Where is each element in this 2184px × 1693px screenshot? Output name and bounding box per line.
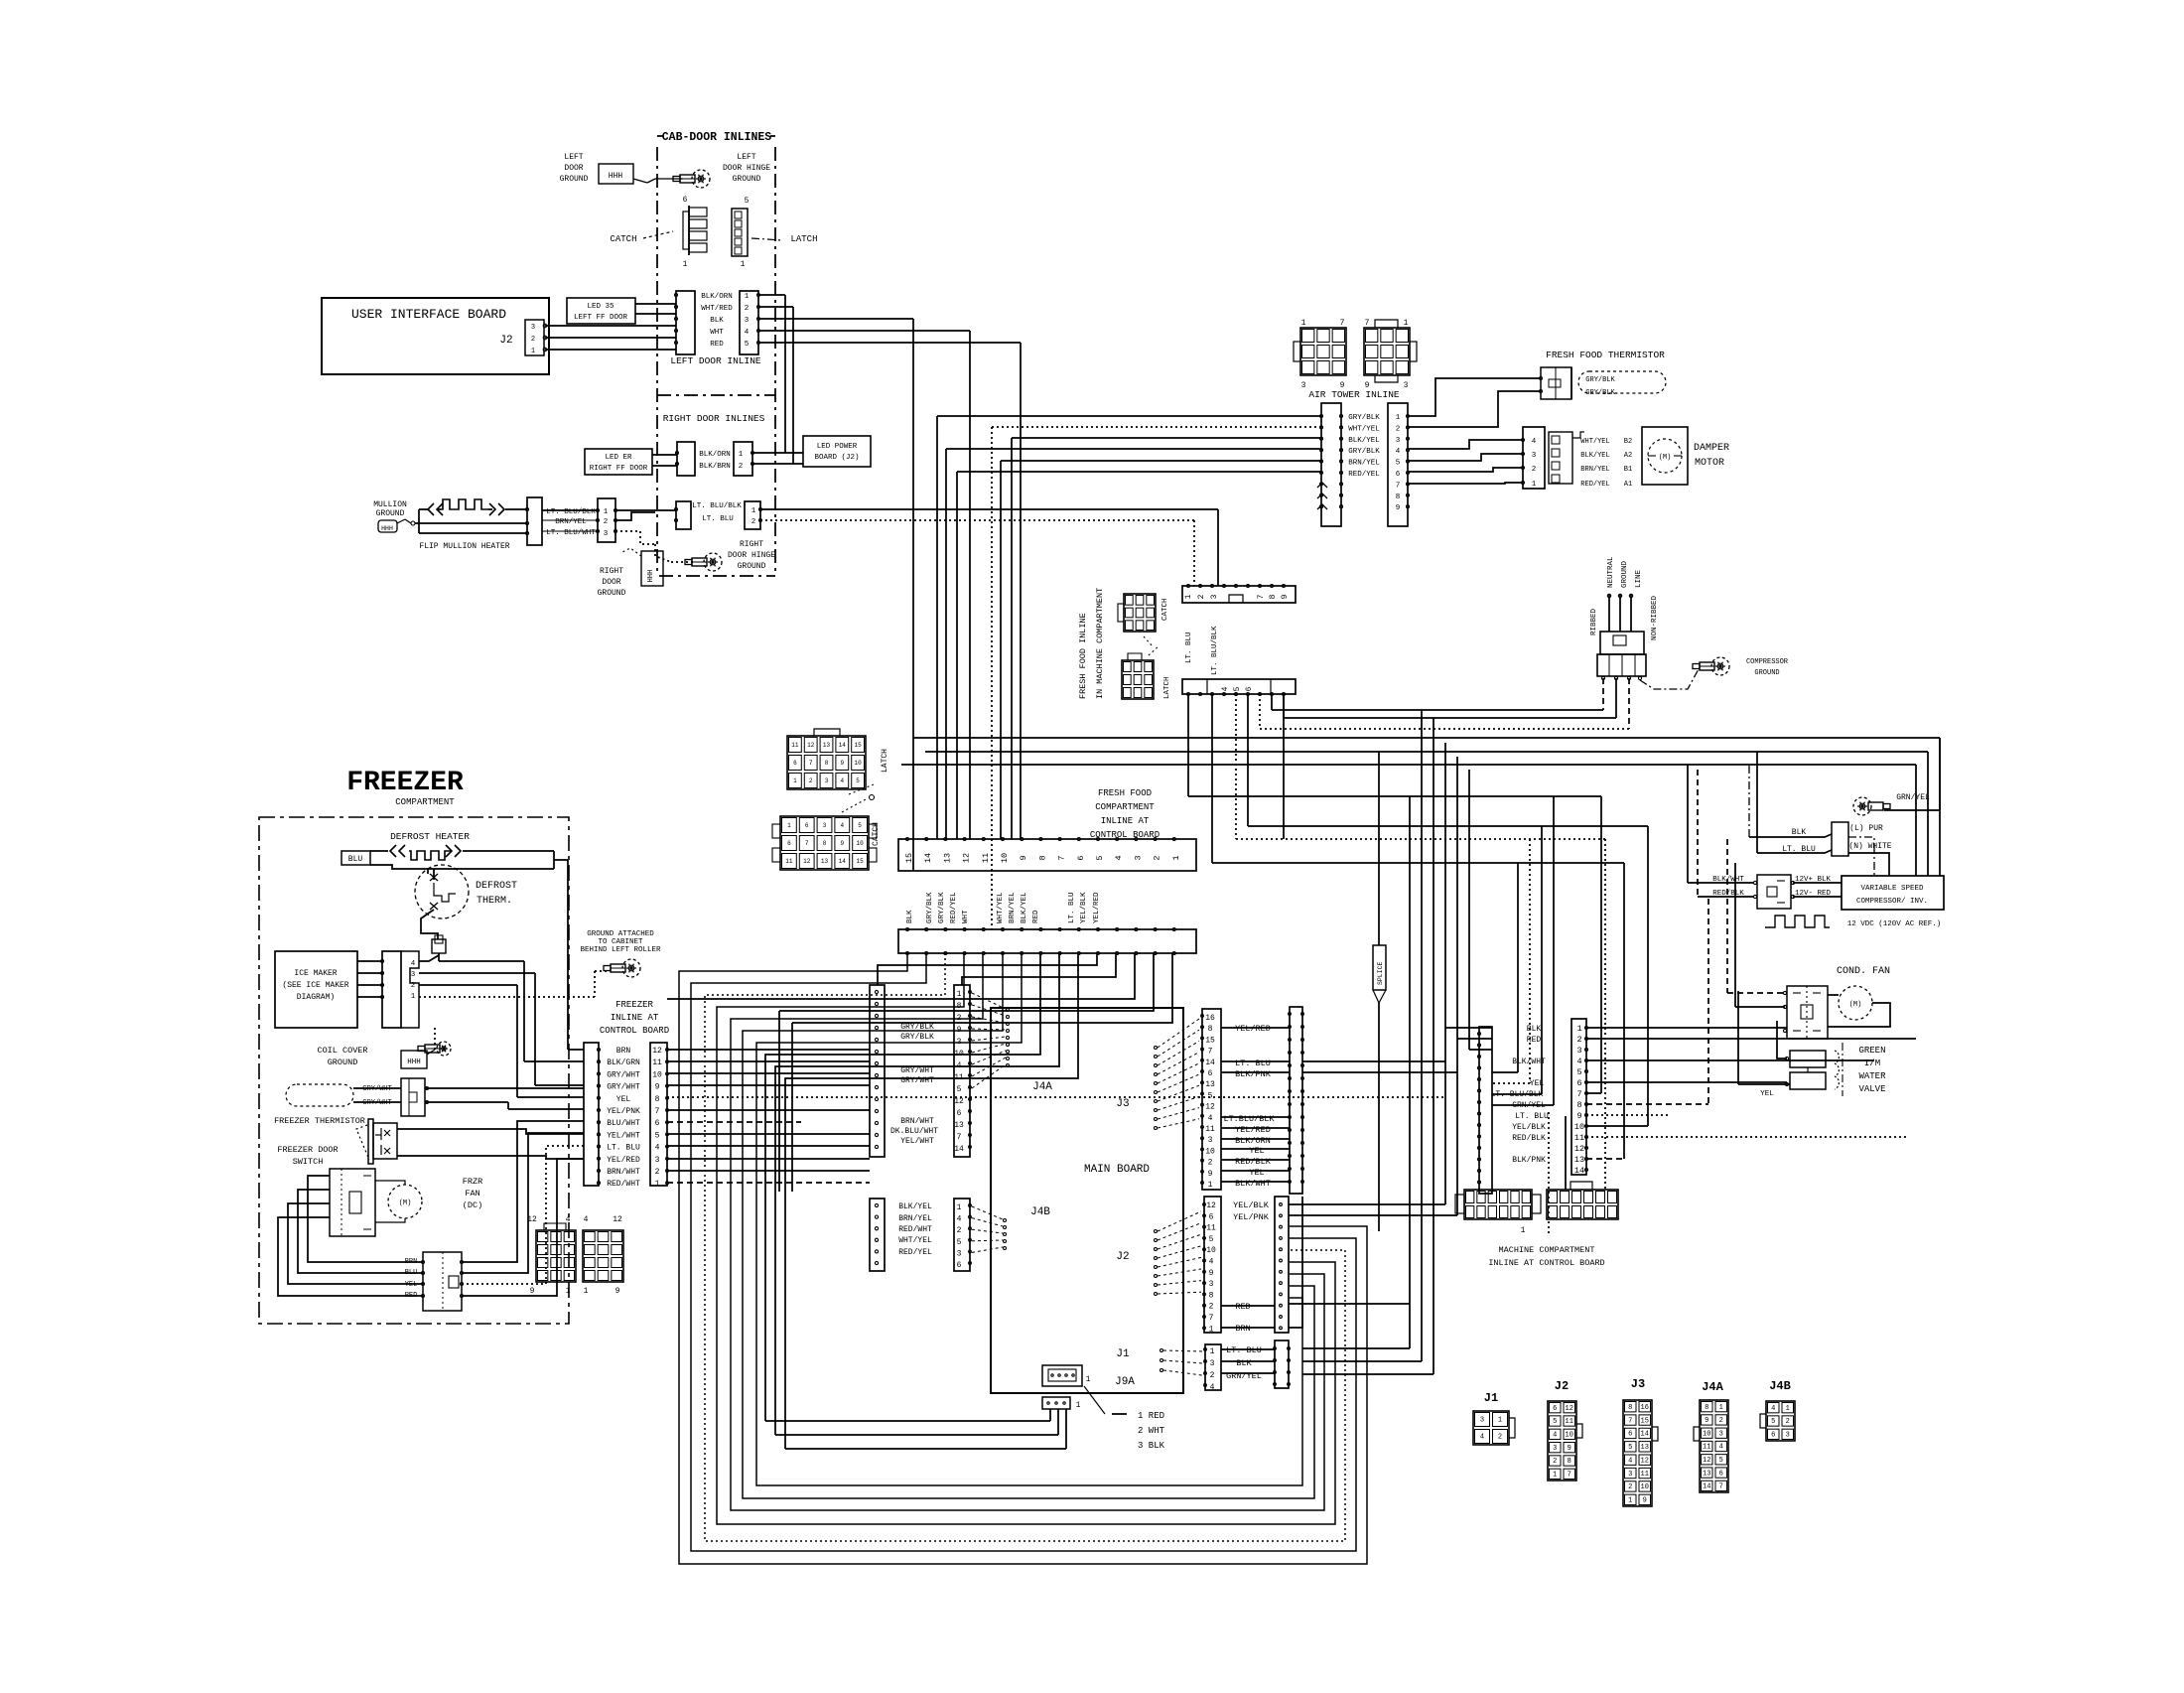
svg-text:2: 2 bbox=[1498, 1434, 1502, 1442]
svg-text:RIGHT DOOR INLINES: RIGHT DOOR INLINES bbox=[663, 413, 765, 424]
svg-text:BLK/YEL: BLK/YEL bbox=[898, 1202, 932, 1211]
svg-text:WHT/YEL: WHT/YEL bbox=[1580, 438, 1609, 446]
svg-text:GROUND: GROUND bbox=[328, 1058, 358, 1067]
svg-text:LT.BLU/BLK: LT.BLU/BLK bbox=[1223, 1114, 1275, 1124]
latch grid 5x3 bbox=[787, 736, 866, 789]
svg-text:MACHINE COMPARTMENT: MACHINE COMPARTMENT bbox=[1499, 1245, 1595, 1255]
freezer thermistor bbox=[286, 1084, 353, 1106]
svg-text:1: 1 bbox=[739, 451, 744, 459]
wires air tower pins 3-6 to damper connector bbox=[1408, 440, 1523, 449]
svg-text:12: 12 bbox=[613, 1215, 622, 1224]
wire loop bundle from control board inline bbox=[679, 953, 1367, 1564]
flip mullion heater resistor bbox=[419, 508, 428, 510]
svg-text:2: 2 bbox=[604, 518, 609, 526]
svg-text:GROUND: GROUND bbox=[1621, 560, 1629, 588]
svg-text:11: 11 bbox=[1205, 1125, 1215, 1134]
svg-text:DIAGRAM): DIAGRAM) bbox=[297, 993, 335, 1002]
svg-text:1: 1 bbox=[1521, 1226, 1526, 1235]
svg-text:RED/YEL: RED/YEL bbox=[950, 892, 958, 923]
svg-text:2 WHT: 2 WHT bbox=[1138, 1426, 1165, 1436]
svg-text:5: 5 bbox=[655, 1131, 660, 1140]
svg-text:GRY/BLK: GRY/BLK bbox=[1348, 448, 1380, 456]
defrost thermostat bbox=[415, 865, 469, 918]
svg-text:FREEZER: FREEZER bbox=[346, 768, 464, 798]
svg-text:BLK/PNK: BLK/PNK bbox=[1512, 1156, 1546, 1165]
svg-text:GRY/WHT: GRY/WHT bbox=[607, 1083, 640, 1092]
svg-text:J1: J1 bbox=[1116, 1348, 1130, 1360]
svg-text:1: 1 bbox=[1719, 1404, 1723, 1412]
svg-text:6: 6 bbox=[805, 822, 809, 829]
svg-text:LT. BLU/BLK: LT. BLU/BLK bbox=[1211, 626, 1219, 675]
svg-text:BLK/ORN: BLK/ORN bbox=[1235, 1136, 1271, 1146]
svg-text:1: 1 bbox=[1210, 1347, 1215, 1356]
svg-text:9: 9 bbox=[1281, 594, 1290, 599]
svg-text:11: 11 bbox=[785, 858, 793, 865]
svg-text:12: 12 bbox=[1566, 1405, 1573, 1413]
svg-text:1: 1 bbox=[1576, 1024, 1581, 1034]
right wire bundle bbox=[1409, 796, 1411, 1348]
svg-text:6: 6 bbox=[655, 1119, 660, 1128]
svg-text:7: 7 bbox=[1208, 1048, 1213, 1057]
svg-text:DOOR: DOOR bbox=[564, 164, 583, 173]
svg-text:BLK/BRN: BLK/BRN bbox=[699, 463, 731, 471]
svg-text:11: 11 bbox=[1574, 1133, 1584, 1143]
svg-text:7: 7 bbox=[1057, 855, 1067, 860]
svg-text:3: 3 bbox=[957, 1249, 962, 1258]
svg-text:5: 5 bbox=[1095, 855, 1105, 860]
svg-text:14: 14 bbox=[954, 1145, 964, 1154]
svg-text:WHT/RED: WHT/RED bbox=[701, 305, 733, 313]
svg-text:LED POWER: LED POWER bbox=[817, 443, 858, 451]
freezer inline left strip bbox=[584, 1043, 599, 1186]
svg-text:RIBBED: RIBBED bbox=[1590, 608, 1598, 635]
svg-text:3: 3 bbox=[411, 971, 416, 979]
svg-text:NEUTRAL: NEUTRAL bbox=[1607, 556, 1615, 588]
svg-text:VARIABLE SPEED: VARIABLE SPEED bbox=[1860, 885, 1924, 893]
svg-text:LT. BLU: LT. BLU bbox=[1235, 1058, 1271, 1068]
svg-text:ICE MAKER: ICE MAKER bbox=[294, 969, 337, 978]
svg-text:5: 5 bbox=[858, 822, 862, 829]
svg-text:FRZR: FRZR bbox=[463, 1177, 482, 1187]
svg-text:B1: B1 bbox=[1624, 466, 1632, 474]
svg-text:BLU/WHT: BLU/WHT bbox=[607, 1119, 640, 1128]
svg-text:RIGHT: RIGHT bbox=[600, 567, 623, 576]
defrost heater element bbox=[370, 850, 388, 852]
svg-text:2: 2 bbox=[1153, 855, 1162, 860]
svg-text:1: 1 bbox=[584, 1287, 589, 1296]
svg-text:YEL/RED: YEL/RED bbox=[1235, 1024, 1271, 1034]
svg-text:5: 5 bbox=[957, 1238, 962, 1247]
svg-text:BLK/YEL: BLK/YEL bbox=[1580, 452, 1609, 460]
svg-text:(L) PUR: (L) PUR bbox=[1849, 824, 1883, 833]
svg-text:J4B: J4B bbox=[1769, 1379, 1791, 1393]
svg-text:3: 3 bbox=[823, 822, 827, 829]
svg-text:BLK/YEL: BLK/YEL bbox=[1021, 892, 1028, 923]
svg-text:GROUND: GROUND bbox=[376, 509, 405, 518]
svg-text:CONTROL BOARD: CONTROL BOARD bbox=[1090, 830, 1160, 840]
svg-text:9: 9 bbox=[1209, 1269, 1214, 1278]
svg-text:2: 2 bbox=[1208, 1159, 1213, 1168]
svg-text:LATCH: LATCH bbox=[790, 234, 817, 244]
svg-text:6: 6 bbox=[1209, 1212, 1214, 1221]
svg-text:10: 10 bbox=[652, 1070, 662, 1079]
svg-text:5: 5 bbox=[1553, 1418, 1557, 1426]
svg-text:11: 11 bbox=[1703, 1444, 1710, 1452]
svg-text:4: 4 bbox=[566, 1215, 571, 1224]
svg-text:4: 4 bbox=[411, 960, 416, 968]
svg-text:LT. BLU: LT. BLU bbox=[1068, 892, 1076, 923]
svg-text:10: 10 bbox=[856, 840, 864, 847]
svg-text:10: 10 bbox=[1641, 1483, 1649, 1491]
svg-text:16: 16 bbox=[1641, 1404, 1649, 1412]
svg-text:RED/YEL: RED/YEL bbox=[898, 1248, 932, 1257]
svg-text:LEFT: LEFT bbox=[737, 153, 755, 162]
svg-text:BRN: BRN bbox=[616, 1047, 631, 1056]
svg-text:INLINE AT CONTROL BOARD: INLINE AT CONTROL BOARD bbox=[1488, 1258, 1604, 1268]
J4A fan-out leaders bbox=[972, 993, 1006, 1009]
svg-text:YEL: YEL bbox=[1249, 1146, 1264, 1156]
svg-text:9: 9 bbox=[1576, 1111, 1581, 1121]
left door inline connector strips bbox=[676, 291, 695, 354]
svg-text:INLINE AT: INLINE AT bbox=[611, 1013, 659, 1023]
svg-text:DEFROST HEATER: DEFROST HEATER bbox=[390, 831, 470, 842]
svg-text:4: 4 bbox=[1396, 448, 1401, 456]
svg-text:BLK: BLK bbox=[1792, 828, 1807, 837]
svg-text:4: 4 bbox=[1628, 1457, 1632, 1465]
svg-text:LT. BLU: LT. BLU bbox=[1185, 632, 1193, 663]
J4B pin strip bbox=[954, 1199, 970, 1271]
svg-text:2: 2 bbox=[809, 777, 813, 784]
wires cond fan feed bbox=[1727, 992, 1785, 994]
svg-text:2: 2 bbox=[751, 518, 756, 526]
svg-text:I/M: I/M bbox=[1864, 1058, 1880, 1068]
svg-text:4: 4 bbox=[840, 777, 844, 784]
svg-text:YEL/BLK: YEL/BLK bbox=[1233, 1200, 1270, 1210]
J4B fan-out leaders bbox=[972, 1206, 1003, 1219]
svg-text:RED: RED bbox=[1527, 1036, 1542, 1045]
svg-text:14: 14 bbox=[1574, 1166, 1584, 1176]
svg-text:1: 1 bbox=[1404, 319, 1409, 328]
svg-text:8: 8 bbox=[1208, 1025, 1213, 1034]
wires strip2 to J9A verticals bbox=[765, 953, 1040, 1082]
svg-text:10: 10 bbox=[1703, 1430, 1710, 1438]
svg-text:BRN/YEL: BRN/YEL bbox=[555, 518, 587, 526]
damper motor box bbox=[1642, 427, 1688, 485]
left door hinge ground symbol bbox=[692, 170, 710, 188]
svg-text:8: 8 bbox=[1037, 855, 1047, 860]
wires strip2 leftward bbox=[667, 953, 1135, 999]
svg-text:BRN/YEL: BRN/YEL bbox=[1348, 460, 1380, 468]
wire defrost therm to fuse bbox=[421, 910, 438, 939]
svg-text:DEFROST: DEFROST bbox=[476, 881, 517, 892]
svg-text:CATCH: CATCH bbox=[872, 822, 881, 846]
svg-text:COMPRESSOR: COMPRESSOR bbox=[1746, 658, 1789, 666]
svg-text:BLK: BLK bbox=[1236, 1358, 1252, 1368]
svg-text:YEL: YEL bbox=[1760, 1090, 1774, 1098]
svg-text:BLK/WHT: BLK/WHT bbox=[1235, 1179, 1271, 1189]
J4A left strip bbox=[870, 985, 885, 1157]
svg-text:RED: RED bbox=[1032, 910, 1040, 923]
svg-text:1: 1 bbox=[1628, 1497, 1632, 1505]
svg-text:1: 1 bbox=[957, 990, 962, 999]
svg-text:GROUND: GROUND bbox=[560, 175, 589, 184]
svg-text:GRY/BLK: GRY/BLK bbox=[1348, 414, 1380, 422]
ground attached symbol bbox=[622, 959, 640, 977]
svg-text:1: 1 bbox=[787, 822, 791, 829]
ff inline catch grid bbox=[1124, 594, 1156, 632]
svg-text:4: 4 bbox=[957, 1215, 962, 1224]
wires UIB J2 to left door inline bbox=[545, 325, 676, 327]
splice marker bbox=[1373, 945, 1386, 990]
svg-text:LED 35: LED 35 bbox=[587, 303, 614, 311]
svg-text:9: 9 bbox=[1396, 504, 1401, 512]
wire continuation arrows near air tower bbox=[1317, 483, 1327, 488]
svg-text:J4A: J4A bbox=[1032, 1081, 1052, 1093]
svg-text:1: 1 bbox=[745, 293, 750, 301]
svg-text:10: 10 bbox=[1206, 1246, 1216, 1255]
svg-text:3: 3 bbox=[655, 1156, 660, 1165]
svg-text:5: 5 bbox=[957, 1085, 962, 1094]
svg-text:TO CABINET: TO CABINET bbox=[598, 938, 643, 946]
svg-text:3: 3 bbox=[1786, 1432, 1790, 1440]
svg-text:7: 7 bbox=[1719, 1483, 1723, 1491]
svg-text:YEL/RED: YEL/RED bbox=[1093, 892, 1101, 923]
svg-text:YEL/RED: YEL/RED bbox=[1235, 1125, 1271, 1135]
right door inline connector strips bbox=[677, 442, 695, 476]
svg-text:4: 4 bbox=[1480, 1434, 1484, 1442]
svg-text:BRN/WHT: BRN/WHT bbox=[900, 1117, 934, 1126]
svg-text:6: 6 bbox=[1628, 1431, 1632, 1439]
svg-text:COIL COVER: COIL COVER bbox=[317, 1046, 367, 1056]
svg-text:3: 3 bbox=[1628, 1471, 1632, 1479]
svg-text:6: 6 bbox=[683, 196, 688, 205]
svg-text:8: 8 bbox=[1568, 1458, 1571, 1466]
air tower inline grid connector right bbox=[1364, 328, 1410, 375]
svg-text:MAIN BOARD: MAIN BOARD bbox=[1084, 1164, 1150, 1176]
svg-text:12: 12 bbox=[1574, 1144, 1584, 1154]
svg-text:7: 7 bbox=[1257, 594, 1266, 599]
svg-text:YEL/WHT: YEL/WHT bbox=[607, 1131, 640, 1140]
svg-text:2: 2 bbox=[531, 336, 535, 344]
svg-text:DAMPER: DAMPER bbox=[1694, 443, 1729, 454]
svg-text:RED/BLK: RED/BLK bbox=[1235, 1157, 1272, 1167]
J1 fan-out leaders bbox=[1163, 1350, 1202, 1351]
mullion heater pin strip bbox=[598, 498, 615, 542]
svg-text:USER INTERFACE BOARD: USER INTERFACE BOARD bbox=[351, 307, 506, 322]
J3 fan-out leaders bbox=[1158, 1019, 1199, 1048]
wires LED35 to left door inline bbox=[635, 303, 676, 305]
svg-text:LT. BLU: LT. BLU bbox=[1515, 1112, 1549, 1121]
svg-text:13: 13 bbox=[1641, 1444, 1649, 1452]
svg-text:CONTROL BOARD: CONTROL BOARD bbox=[600, 1026, 669, 1036]
svg-text:1 RED: 1 RED bbox=[1138, 1411, 1164, 1421]
svg-text:3: 3 bbox=[1404, 381, 1409, 390]
svg-text:J2: J2 bbox=[1116, 1251, 1129, 1263]
svg-text:7: 7 bbox=[809, 760, 813, 767]
svg-text:6: 6 bbox=[1771, 1432, 1775, 1440]
svg-text:FREEZER DOOR: FREEZER DOOR bbox=[277, 1145, 338, 1155]
svg-text:J4B: J4B bbox=[1030, 1206, 1050, 1218]
svg-text:LED ER: LED ER bbox=[605, 454, 632, 462]
svg-text:YEL: YEL bbox=[616, 1095, 631, 1104]
svg-text:9: 9 bbox=[1705, 1417, 1708, 1425]
user interface board bbox=[322, 298, 549, 374]
svg-text:B2: B2 bbox=[1624, 438, 1632, 446]
wires water valve bbox=[1777, 1021, 1787, 1058]
svg-text:RIGHT: RIGHT bbox=[740, 540, 763, 549]
J4A pin strip bbox=[954, 985, 970, 1157]
ff inline lower strip bbox=[1182, 679, 1296, 694]
svg-text:(M): (M) bbox=[1849, 1001, 1862, 1009]
svg-text:LEFT DOOR INLINE: LEFT DOOR INLINE bbox=[670, 355, 761, 366]
svg-text:6: 6 bbox=[957, 1261, 962, 1270]
svg-text:1: 1 bbox=[1301, 319, 1306, 328]
svg-text:3: 3 bbox=[1133, 855, 1143, 860]
water valve assembly bbox=[1790, 1051, 1826, 1067]
svg-text:12: 12 bbox=[803, 858, 811, 865]
wires right door inline to LED power board bbox=[752, 452, 803, 454]
svg-text:(N) WHITE: (N) WHITE bbox=[1848, 842, 1891, 851]
BLU label box bbox=[341, 851, 370, 865]
svg-text:SWITCH: SWITCH bbox=[293, 1157, 324, 1167]
svg-text:10: 10 bbox=[1566, 1432, 1573, 1440]
svg-text:LT. BLU: LT. BLU bbox=[702, 515, 734, 523]
svg-text:FRESH FOOD THERMISTOR: FRESH FOOD THERMISTOR bbox=[1546, 350, 1665, 360]
svg-text:LATCH: LATCH bbox=[1163, 676, 1171, 699]
svg-text:12: 12 bbox=[807, 742, 815, 749]
svg-text:YEL/RED: YEL/RED bbox=[607, 1156, 640, 1165]
J2 pin strip bbox=[1204, 1197, 1221, 1333]
svg-text:3 BLK: 3 BLK bbox=[1138, 1441, 1165, 1451]
svg-text:1: 1 bbox=[411, 993, 416, 1001]
svg-text:DK.BLU/WHT: DK.BLU/WHT bbox=[890, 1127, 938, 1136]
wires mullion pins to door inline bbox=[542, 509, 598, 511]
svg-text:6: 6 bbox=[1719, 1470, 1723, 1478]
svg-text:1: 1 bbox=[1076, 1401, 1081, 1410]
svg-text:2: 2 bbox=[1786, 1418, 1790, 1426]
svg-text:FRESH FOOD: FRESH FOOD bbox=[1098, 788, 1152, 798]
svg-text:7: 7 bbox=[1568, 1472, 1571, 1480]
compressor ground symbol bbox=[1711, 657, 1729, 675]
svg-text:DOOR: DOOR bbox=[602, 578, 620, 587]
svg-text:13: 13 bbox=[942, 853, 952, 863]
cab-door inlines dashed enclosure bbox=[656, 147, 658, 576]
svg-text:1: 1 bbox=[683, 260, 688, 269]
svg-text:4: 4 bbox=[1114, 855, 1124, 860]
svg-text:2: 2 bbox=[1719, 1417, 1723, 1425]
svg-text:BLK/PNK: BLK/PNK bbox=[1235, 1069, 1272, 1079]
svg-text:3: 3 bbox=[1480, 1417, 1484, 1425]
J1 right strip bbox=[1275, 1340, 1289, 1388]
svg-text:GROUND: GROUND bbox=[1754, 669, 1779, 677]
svg-text:BRN/YEL: BRN/YEL bbox=[1009, 892, 1017, 923]
svg-text:4: 4 bbox=[1208, 1114, 1213, 1123]
svg-text:J4A: J4A bbox=[1702, 1380, 1723, 1394]
svg-text:7: 7 bbox=[1576, 1089, 1581, 1099]
main board box bbox=[991, 1008, 1183, 1393]
svg-text:YEL: YEL bbox=[405, 1281, 418, 1289]
svg-text:8: 8 bbox=[1269, 594, 1278, 599]
svg-text:14: 14 bbox=[839, 742, 847, 749]
svg-text:J1: J1 bbox=[1484, 1391, 1498, 1405]
svg-text:7: 7 bbox=[805, 840, 809, 847]
svg-text:RED/YEL: RED/YEL bbox=[1348, 471, 1380, 479]
svg-text:FREEZER THERMISTOR: FREEZER THERMISTOR bbox=[274, 1116, 365, 1126]
svg-text:BLK: BLK bbox=[906, 910, 914, 923]
wires ff inline lower strip to power entry bbox=[1271, 694, 1273, 710]
svg-text:11: 11 bbox=[652, 1058, 662, 1067]
ff inline latch grid bbox=[1122, 660, 1154, 699]
svg-text:10: 10 bbox=[1000, 853, 1010, 863]
wire air tower pin2 to fresh food thermistor bbox=[1408, 391, 1541, 427]
svg-text:WHT: WHT bbox=[710, 329, 724, 337]
svg-text:11: 11 bbox=[1206, 1224, 1216, 1233]
svg-text:5: 5 bbox=[1233, 686, 1242, 691]
svg-text:1: 1 bbox=[751, 507, 756, 515]
svg-text:GRY/BLK: GRY/BLK bbox=[1585, 389, 1615, 397]
J3 right strip bbox=[1290, 1007, 1302, 1194]
svg-text:4: 4 bbox=[745, 329, 750, 337]
svg-text:5: 5 bbox=[1771, 1418, 1775, 1426]
svg-text:2: 2 bbox=[411, 982, 416, 990]
damper motor connector block bbox=[1549, 432, 1572, 484]
svg-text:8: 8 bbox=[655, 1095, 660, 1104]
svg-text:7: 7 bbox=[1209, 1314, 1214, 1323]
svg-text:9: 9 bbox=[655, 1083, 660, 1092]
damper motor pin strip bbox=[1523, 427, 1545, 489]
svg-text:RIGHT FF DOOR: RIGHT FF DOOR bbox=[590, 465, 648, 473]
svg-text:13: 13 bbox=[1574, 1155, 1584, 1165]
catch grid 5x3 bbox=[780, 816, 869, 870]
svg-text:GRY/BLK: GRY/BLK bbox=[926, 892, 934, 923]
cond fan motor bbox=[1839, 986, 1872, 1020]
svg-text:2: 2 bbox=[1576, 1035, 1581, 1045]
wires LED ER to right door inline bbox=[652, 454, 677, 456]
svg-text:1: 1 bbox=[655, 1180, 660, 1189]
svg-text:3: 3 bbox=[1553, 1445, 1557, 1453]
svg-text:15: 15 bbox=[1641, 1417, 1649, 1425]
machine compartment pin strip 1-14 bbox=[1571, 1019, 1586, 1175]
svg-text:10: 10 bbox=[1574, 1122, 1584, 1132]
svg-text:9: 9 bbox=[1568, 1445, 1571, 1453]
svg-text:YEL: YEL bbox=[1249, 1168, 1264, 1178]
svg-text:IN MACHINE COMPARTMENT: IN MACHINE COMPARTMENT bbox=[1095, 588, 1105, 699]
svg-text:2: 2 bbox=[1532, 466, 1537, 474]
svg-text:CATCH: CATCH bbox=[1161, 598, 1169, 621]
svg-text:1: 1 bbox=[566, 1287, 571, 1296]
svg-text:12: 12 bbox=[1641, 1457, 1649, 1465]
machine compartment inline grid connectors bbox=[1464, 1190, 1532, 1219]
svg-text:4: 4 bbox=[1576, 1057, 1581, 1066]
svg-text:9: 9 bbox=[840, 840, 844, 847]
svg-text:14: 14 bbox=[923, 853, 933, 863]
bus line 1 bbox=[913, 737, 1940, 739]
svg-text:6: 6 bbox=[1245, 686, 1254, 691]
svg-text:GROUND: GROUND bbox=[738, 562, 766, 571]
svg-text:5: 5 bbox=[1719, 1457, 1723, 1465]
svg-text:CATCH: CATCH bbox=[610, 234, 636, 244]
svg-text:6: 6 bbox=[787, 840, 791, 847]
svg-text:5: 5 bbox=[856, 777, 860, 784]
svg-text:14: 14 bbox=[1703, 1483, 1710, 1491]
relay dashed feed to strip bbox=[1707, 899, 1709, 1104]
svg-text:1: 1 bbox=[1208, 1181, 1213, 1190]
svg-text:COND. FAN: COND. FAN bbox=[1837, 966, 1890, 977]
svg-text:GRN/YEL: GRN/YEL bbox=[1896, 793, 1930, 802]
LED 35 LEFT FF DOOR box bbox=[567, 298, 635, 324]
svg-text:LATCH: LATCH bbox=[881, 749, 889, 773]
J9A connector bbox=[1042, 1365, 1082, 1386]
